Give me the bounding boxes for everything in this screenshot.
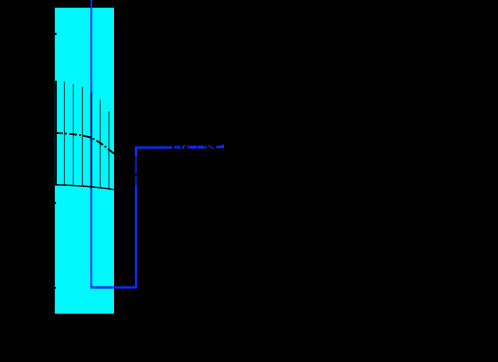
dim segment on riser (curve shadow) (135, 156, 138, 187)
wire: blue vertical line through plate (x=91) (90, 0, 92, 286)
wire: bottom jog, riser and top lead (bracket) (90, 148, 172, 288)
tick mark on plate left edge (lower) (55, 287, 56, 289)
curve crossing notch on riser (135, 174, 138, 176)
bottom boundary curve (55, 185, 115, 190)
hatch line 3 (72, 84, 74, 186)
hatch line 4 (81, 87, 83, 186)
hatch line 2 (63, 82, 65, 186)
cyan plate (vertical bar) (55, 8, 114, 314)
dash-dot profile curve (55, 133, 114, 154)
value label dashes on top lead (174, 145, 224, 149)
hatch line 5 (over wire) (90, 92, 92, 186)
tick mark on plate left edge (middle) (55, 202, 56, 204)
hatch line 1 (plate left edge) (55, 81, 57, 185)
hatch line 6 (99, 100, 101, 188)
tick mark on plate left edge (top) (55, 33, 57, 35)
hatch line 7 (108, 111, 110, 189)
